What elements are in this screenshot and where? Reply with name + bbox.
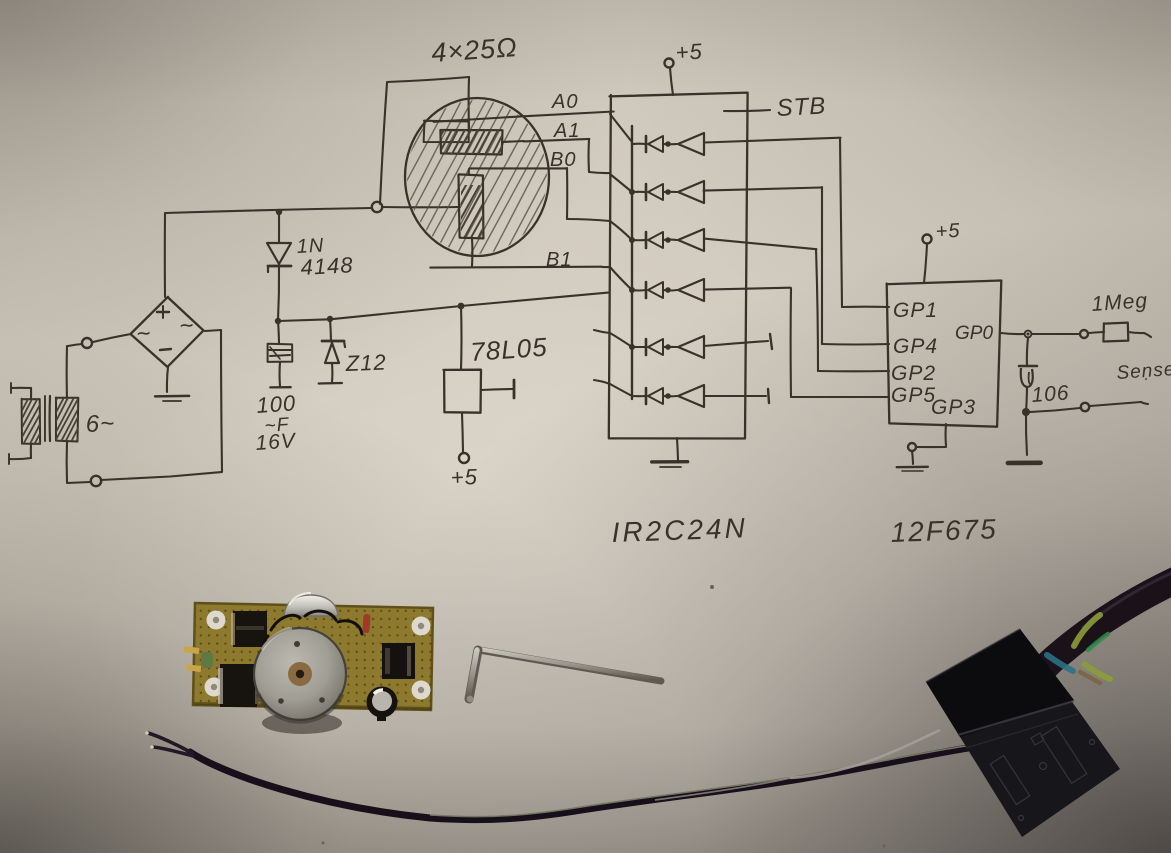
junction rail-cap	[275, 318, 281, 324]
label B0	[550, 149, 576, 171]
wire +5 to driver	[670, 68, 673, 95]
PIC U2 12F675 box	[887, 281, 1002, 427]
photo green part	[201, 652, 213, 668]
svg-text:Sense: Sense	[1116, 359, 1171, 384]
photo right IC	[382, 643, 415, 679]
pin label GP5	[891, 384, 936, 407]
svg-text:12F675: 12F675	[890, 513, 998, 548]
wire to ground	[1026, 412, 1027, 455]
pin label GP0	[955, 323, 993, 344]
motor coil A lead	[502, 141, 524, 142]
photo mains cable	[1042, 572, 1171, 671]
regulator ground lead	[481, 380, 514, 398]
junction sense node	[1022, 408, 1030, 416]
resistor R1 1Meg	[1103, 323, 1128, 342]
capacitor C2 106	[1019, 366, 1037, 387]
svg-text:STB: STB	[776, 92, 827, 122]
capacitor C1 100nF	[268, 321, 293, 387]
label 1Meg	[1091, 289, 1149, 316]
motor coil A resistor	[392, 79, 549, 204]
pin label GP3	[931, 396, 976, 419]
wire GP3 to ground	[917, 424, 946, 447]
node open terminal before 1Meg	[1080, 330, 1088, 338]
pin label GP2	[891, 362, 936, 385]
wire common to coil B	[382, 206, 460, 208]
label 78L05	[469, 332, 548, 367]
wire Sense right	[1090, 402, 1148, 406]
wire low rail	[278, 293, 608, 321]
driver channel 6 input stub	[594, 380, 610, 384]
ground sense cap	[1008, 460, 1041, 465]
svg-text:100: 100	[256, 390, 297, 418]
driver input rail	[631, 126, 633, 399]
svg-text:+5: +5	[450, 464, 478, 490]
resistor bank outline	[380, 77, 469, 204]
label Z12	[344, 350, 387, 376]
wire driver out2 to GP4	[704, 187, 889, 345]
label 1N 4148	[296, 235, 354, 280]
node GP3 ground terminal	[908, 443, 916, 451]
motor coil B resistor	[400, 157, 542, 267]
photo earth wire	[1074, 615, 1110, 679]
wire top rail to motor terminal	[165, 208, 372, 297]
svg-text:16V: 16V	[255, 429, 298, 455]
driver channel 5 diode and buffer	[610, 333, 704, 358]
photo IC2	[218, 664, 258, 707]
driver channel 6 diode and buffer	[610, 384, 704, 407]
photo lamp dome	[284, 593, 338, 616]
junction at diode top	[276, 209, 282, 215]
label B1	[546, 249, 572, 271]
driver IC U1 box	[609, 93, 748, 439]
wire GP0 to 1Meg	[1032, 333, 1080, 335]
label A0	[551, 91, 578, 113]
wire AC1 to transformer secondary	[67, 344, 82, 399]
svg-text:GP2: GP2	[891, 362, 936, 385]
driver channel 5 output stub	[704, 334, 772, 349]
photo red resistor	[362, 614, 370, 633]
photo white wire	[655, 730, 940, 800]
photo blue wire	[1047, 655, 1073, 671]
node AC terminal 1	[82, 338, 92, 348]
svg-text:A1: A1	[553, 120, 580, 142]
svg-text:GP5: GP5	[891, 384, 936, 407]
wire rail to regulator	[460, 306, 463, 370]
photo IC1	[231, 611, 267, 647]
motor body circle	[227, 0, 728, 377]
driver channel 4 rail junction	[629, 287, 635, 293]
driver channel 4 diode and buffer	[610, 267, 704, 301]
wire Sense	[1030, 408, 1080, 412]
node terminal at motor common	[372, 202, 382, 212]
wire regulator to +5 terminal	[462, 413, 463, 452]
ground below bridge	[155, 367, 189, 401]
wire A0	[434, 112, 614, 122]
driver channel 1 diode and buffer	[610, 114, 704, 155]
wire driver out4 to GP5	[705, 288, 890, 397]
zener diode Z12	[319, 319, 345, 384]
label A1	[553, 120, 580, 142]
svg-text:A0: A0	[551, 91, 578, 113]
photo brown wire	[1080, 672, 1100, 683]
photo perfboard	[193, 603, 433, 710]
svg-text:GP4: GP4	[893, 335, 938, 358]
diode D1 1N4148	[267, 213, 291, 320]
wire A1	[524, 139, 610, 173]
photo stepper motor	[254, 623, 346, 734]
svg-text:B0: B0	[550, 149, 576, 171]
svg-text:+5: +5	[675, 39, 703, 65]
photo electrolytic cap	[367, 687, 398, 722]
svg-text:1Meg: 1Meg	[1091, 289, 1149, 316]
ground GP3	[897, 451, 928, 471]
label IR2C24N	[611, 512, 748, 548]
node +5 driver terminal	[665, 59, 674, 68]
label STB	[776, 92, 827, 122]
label 12F675	[890, 513, 998, 548]
svg-text:~: ~	[178, 312, 195, 340]
svg-text:6~: 6~	[85, 410, 115, 438]
label +5 regulator	[450, 464, 478, 490]
label 6~ transformer	[85, 410, 115, 438]
node open terminal sense	[1081, 403, 1089, 411]
wire driver out1 to GP1	[704, 138, 889, 307]
driver channel 2 diode and buffer	[610, 174, 704, 203]
photo wire fork	[145, 731, 193, 756]
bridge rectifier	[131, 297, 204, 367]
driver channel 5 rail junction	[629, 344, 635, 350]
dust specks	[322, 378, 1148, 848]
svg-text:IR2C24N: IR2C24N	[611, 512, 748, 548]
wire B0	[469, 168, 610, 221]
svg-text:~: ~	[135, 320, 152, 348]
svg-text:GP1: GP1	[893, 299, 938, 322]
svg-text:4148: 4148	[300, 252, 354, 280]
node +5 PIC terminal	[923, 235, 932, 244]
photo adapter box	[926, 629, 1120, 837]
wire +5 to PIC	[924, 244, 927, 283]
photo header pins	[184, 646, 202, 672]
driver channel 2 rail junction	[629, 189, 635, 195]
label 4x25 ohm	[430, 32, 518, 68]
svg-text:GP3: GP3	[931, 396, 976, 419]
label +5 PIC	[935, 220, 961, 243]
driver channel 3 rail junction	[629, 237, 635, 243]
label Sense	[1116, 359, 1171, 384]
driver channel 3 diode and buffer	[610, 221, 704, 251]
wire STB	[724, 110, 770, 111]
svg-text:106: 106	[1031, 381, 1071, 407]
node +5 output terminal	[459, 453, 469, 463]
driver channel 5 input stub	[594, 330, 610, 333]
svg-text:GP0: GP0	[955, 323, 993, 344]
wire GP0 to capacitor	[1027, 338, 1028, 365]
node AC terminal 2	[91, 476, 101, 486]
wire secondary to AC terminal 2	[67, 441, 90, 483]
junction GP0 node	[1025, 331, 1032, 338]
svg-text:Z12: Z12	[344, 350, 387, 376]
svg-text:4×25Ω: 4×25Ω	[430, 32, 518, 68]
transformer core	[45, 396, 50, 441]
label 106	[1031, 381, 1071, 407]
wire to resistor	[1089, 332, 1104, 333]
junction rail-zener	[327, 316, 333, 322]
photo black jumper wires	[264, 611, 363, 654]
wire AC2 loop to bridge right	[101, 330, 222, 480]
svg-text:78L05: 78L05	[469, 332, 548, 367]
transformer primary winding	[0, 375, 89, 468]
transformer secondary winding	[8, 373, 125, 466]
junction rail-regulator	[458, 303, 465, 310]
label 100 nF 16V	[255, 390, 298, 455]
driver channel 6 output stub	[704, 389, 769, 403]
wire capacitor to ground node	[1026, 388, 1027, 412]
wire resistor out	[1128, 332, 1151, 337]
pin label GP1	[893, 299, 938, 322]
svg-text:B1: B1	[546, 249, 572, 271]
pin label GP4	[893, 335, 938, 358]
ground driver	[652, 438, 688, 467]
wire bridge to AC terminal 1	[93, 334, 131, 342]
photo motor lead wire	[190, 746, 968, 820]
regulator 78L05	[444, 370, 482, 413]
label +5 driver	[675, 39, 703, 65]
wire B1	[430, 238, 610, 268]
wire driver out3 to GP2	[704, 239, 889, 372]
wire GP0 out	[1001, 333, 1024, 334]
photo allen key	[467, 649, 661, 702]
svg-text:+5: +5	[935, 220, 961, 243]
